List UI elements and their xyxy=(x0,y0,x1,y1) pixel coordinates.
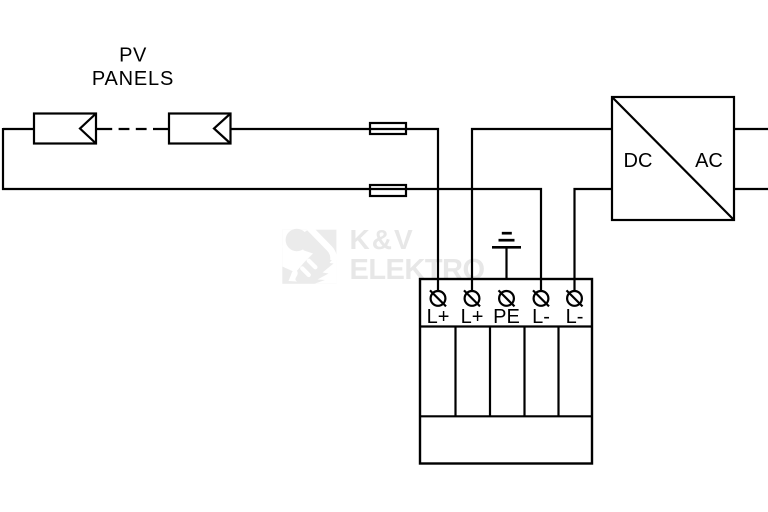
inverter U1 DC/AC xyxy=(612,97,734,220)
wire: PV2 to fuse F1 and down to SPD L+ xyxy=(230,129,438,291)
svg-text:AC: AC xyxy=(695,150,723,172)
svg-text:L+: L+ xyxy=(427,306,450,328)
wire: left stub from PV1 xyxy=(3,128,34,130)
svg-text:L-: L- xyxy=(532,306,550,328)
PV panel PV2 xyxy=(169,114,231,144)
svg-text:PE: PE xyxy=(493,306,520,328)
svg-text:ELEKTRO: ELEKTRO xyxy=(350,254,485,286)
terminal 1 L+ xyxy=(427,290,450,328)
fuse F1 xyxy=(370,123,406,134)
svg-text:PANELS: PANELS xyxy=(92,68,174,90)
svg-text:DC: DC xyxy=(624,150,653,172)
wire: dashed between panels xyxy=(96,128,169,130)
svg-text:L+: L+ xyxy=(461,306,484,328)
fuse F2 xyxy=(370,185,406,196)
PV panel PV1 xyxy=(34,114,96,144)
svg-text:PV: PV xyxy=(119,45,147,67)
watermark logo xyxy=(282,226,336,284)
terminal 2 L+ xyxy=(461,290,484,328)
terminal 4 L- xyxy=(532,290,550,328)
wire: inverter AC output bottom xyxy=(734,188,768,190)
svg-text:L-: L- xyxy=(566,306,584,328)
SPD surge protector box xyxy=(420,279,592,464)
wire: inverter AC output top xyxy=(734,128,768,130)
ground PE xyxy=(492,233,521,279)
wire: SPD L+ (2nd) up and right to inverter DC input xyxy=(472,129,612,291)
wire: SPD L- (5th) up and right to inverter DC input xyxy=(575,189,613,291)
terminal 5 L- xyxy=(566,290,584,328)
svg-text:K&V: K&V xyxy=(350,224,415,255)
wire: bottom horizontal to SPD L- xyxy=(2,189,541,291)
wire: left vertical xyxy=(2,128,4,190)
terminal 3 PE xyxy=(493,290,520,328)
